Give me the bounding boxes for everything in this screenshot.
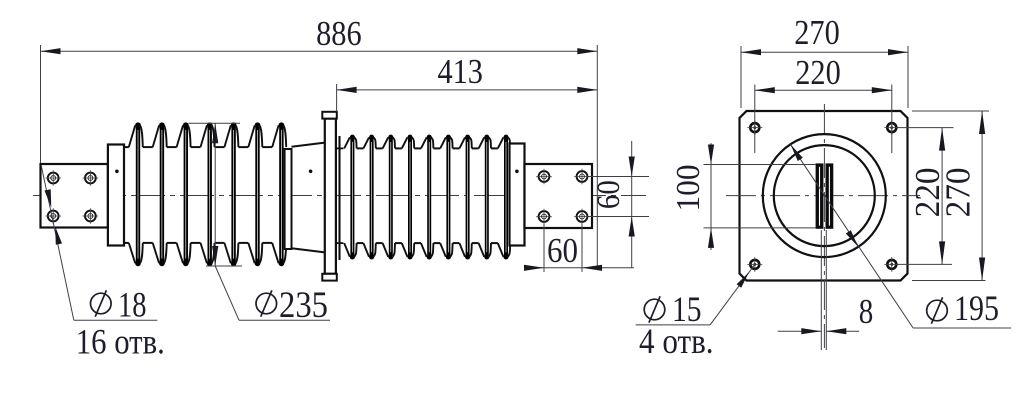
svg-text:413: 413 [437,52,483,91]
dimension 270 top extension lines [741,46,908,108]
label 16 holes [76,322,165,362]
mounting flange bottom cap [322,274,337,281]
flange circle diameter 195 [763,134,886,257]
gasket washer right of flange [336,136,343,260]
dimension 413 [337,52,598,93]
dimension 100 [670,143,714,250]
svg-text:100: 100 [670,165,707,212]
dimension 886 extension lines [41,45,598,268]
conductor bar right half [826,163,834,228]
dimension 60 horizontal extension lines [544,224,582,272]
dimension 220 right extension lines [897,128,954,265]
dimension 60 vertical [591,141,635,268]
svg-text:195: 195 [954,288,999,328]
valley before first large shed [124,147,129,243]
right end collar [510,144,525,246]
svg-text:270: 270 [794,13,840,52]
corner bolt hole C2 [884,120,899,135]
horizontal centerline (end view) [726,195,920,197]
dimension 60 horizontal [524,231,634,271]
label diameter 195 [927,288,999,328]
dimension 100 extension lines [704,165,817,228]
inner boss circle [774,145,875,246]
svg-text:235: 235 [279,285,328,326]
dimension 270 right [938,111,985,281]
dimension 270 top [741,13,908,55]
right terminal pad [525,164,593,228]
left terminal hole A3 [45,208,61,224]
dimension 220 right [908,128,947,265]
insulator large sheds (left section) [129,122,286,266]
svg-text:4 отв.: 4 отв. [639,321,714,361]
dimension 8 extension lines [821,230,826,350]
insulator small sheds (right section) [344,135,510,260]
dimension 220 top [755,53,892,93]
svg-text:220: 220 [795,53,841,92]
flange plate (end view) [740,111,908,281]
dimension 270 right extension lines [912,111,989,281]
mounting flange top cap [322,112,337,119]
left terminal pad [41,164,108,228]
dimension 220 top extension lines [755,85,892,154]
leader to diameter 235 label [215,266,330,320]
svg-text:270: 270 [938,167,977,217]
corner bolt hole C4 [884,257,899,272]
right terminal hole B3 [536,209,552,225]
vertical centerline (end view) [823,104,825,348]
corner bolt hole C1 [747,120,762,135]
tapered body to mounting flange [292,143,325,253]
dimension 8 [778,292,874,335]
svg-text:60: 60 [547,231,578,270]
leader diameter 15 [636,264,755,325]
leader diameter 18 with arrows [41,166,157,320]
svg-text:18: 18 [118,285,147,325]
dimension diameter 195 line with arrows [790,144,1011,328]
corner bolt hole C3 [747,257,762,272]
svg-text:16 отв.: 16 отв. [76,322,165,362]
dimension 886 [41,14,598,54]
centerline of bushing side view [33,195,646,197]
conductor bar left half [816,163,824,228]
svg-text:60: 60 [591,180,627,209]
mounting flange column [325,119,336,274]
dimension 413 extension line [336,84,338,112]
svg-text:886: 886 [316,14,362,53]
left terminal hole A1 [45,170,61,186]
label diameter 235 [256,285,328,326]
label diameter 15 [644,289,701,329]
right terminal hole B2 [574,169,590,185]
svg-text:8: 8 [859,292,874,331]
label diameter 18 [91,285,147,325]
right terminal hole B4 [574,209,590,225]
dimension diameter 235 ticks and line [189,123,243,266]
left terminal hole A4 [83,208,99,224]
dimension 60 vertical extension lines [588,177,649,217]
left end collar [108,145,124,246]
right terminal hole B1 [536,169,552,185]
left terminal hole A2 [83,170,99,186]
label 4 holes [639,321,714,361]
mid collar left of flange [285,149,292,249]
